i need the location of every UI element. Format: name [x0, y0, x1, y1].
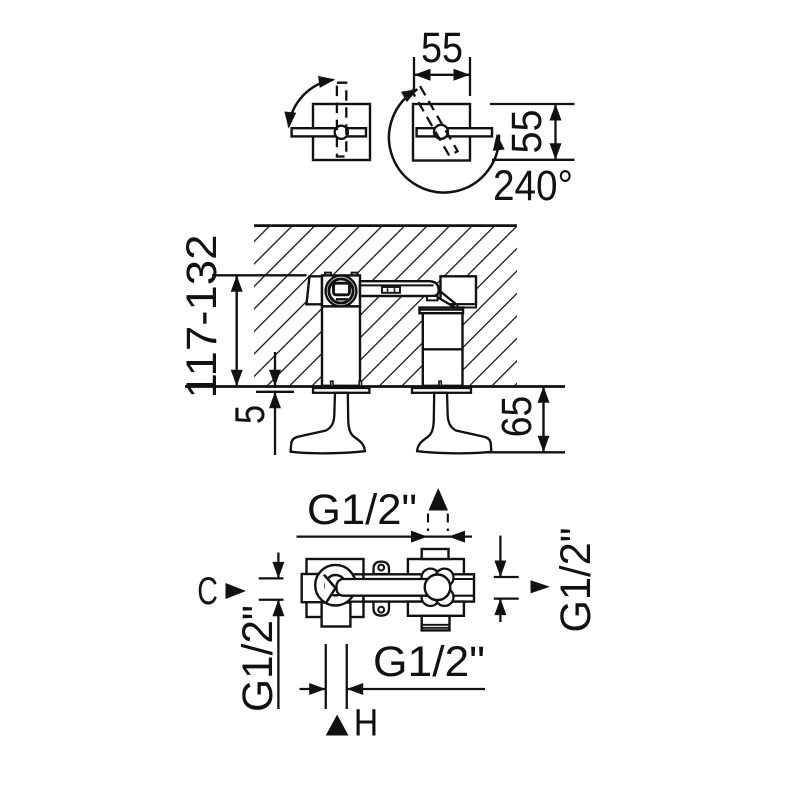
svg-text:240°: 240° — [493, 162, 573, 210]
svg-text:55: 55 — [503, 110, 551, 154]
svg-text:H: H — [354, 703, 379, 745]
svg-text:G1/2": G1/2" — [234, 605, 282, 712]
svg-text:5: 5 — [226, 405, 273, 424]
svg-text:65: 65 — [493, 396, 541, 438]
svg-text:55: 55 — [421, 24, 463, 72]
svg-text:G1/2": G1/2" — [307, 486, 417, 534]
svg-text:G1/2": G1/2" — [373, 638, 485, 686]
svg-text:C: C — [197, 570, 218, 613]
svg-text:117-132: 117-132 — [178, 235, 226, 399]
svg-text:G1/2": G1/2" — [552, 528, 600, 633]
